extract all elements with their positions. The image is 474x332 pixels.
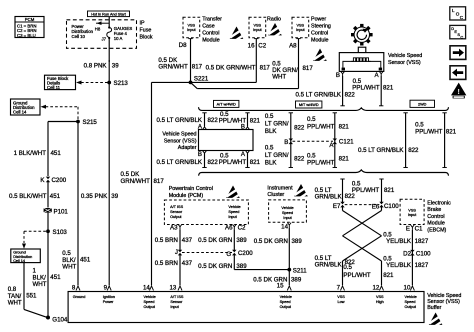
svg-text:Low: Low (338, 300, 345, 304)
svg-text:Electronic: Electronic (427, 200, 451, 206)
ground G104 (46, 316, 68, 324)
svg-text:VSS: VSS (187, 24, 195, 28)
buffer pin 12 (372, 284, 384, 304)
wire 0.5 DK GRN 389 from G to S211 (198, 255, 289, 270)
power steering control module box (292, 17, 331, 44)
svg-text:GRN/WHT: GRN/WHT (121, 178, 151, 185)
svg-text:Input: Input (253, 28, 262, 32)
svg-text:0.5 DK GRN: 0.5 DK GRN (198, 263, 232, 270)
wire 0.5 LT GRN/BLK 822 from VSS B (295, 76, 355, 106)
svg-text:821: 821 (250, 159, 261, 166)
svg-text:39: 39 (112, 62, 119, 69)
wire 0.5 BLK/WHT 451 to pin 8 (62, 250, 91, 270)
wire 0.5 DK GRN 389 cluster to S211 (254, 228, 303, 270)
connector C100 pin D2 (403, 250, 431, 258)
option label A/T w4WD (214, 100, 239, 107)
connector C121 (284, 138, 354, 149)
buffer pin 10 (404, 284, 417, 309)
svg-text:VSS: VSS (376, 295, 384, 299)
svg-text:Adapter: Adapter (178, 145, 197, 151)
svg-text:B: B (336, 72, 340, 79)
svg-text:C200: C200 (238, 250, 253, 257)
svg-text:Vehicle: Vehicle (144, 295, 156, 299)
svg-text:WHT: WHT (8, 300, 22, 307)
svg-text:Cell 11: Cell 11 (47, 85, 61, 90)
svg-text:WHT: WHT (33, 281, 47, 288)
svg-text:Module: Module (311, 38, 329, 44)
svg-text:A3: A3 (170, 224, 178, 231)
wire labels 2WD (358, 122, 457, 154)
svg-text:WHT: WHT (62, 264, 76, 271)
wire 0.5 DK GRN 389 upper (198, 229, 247, 250)
splice S211 (287, 267, 307, 274)
svg-text:0.35 PNK: 0.35 PNK (81, 193, 108, 200)
svg-text:VSS: VSS (296, 24, 304, 28)
PCM pin A6 C2 (225, 224, 246, 231)
AT adapter stub wire B top (241, 113, 250, 131)
wire labels MT lower left (265, 145, 305, 167)
svg-text:PPL/WHT: PPL/WHT (307, 124, 335, 131)
wire labels MT left (265, 113, 305, 135)
svg-text:Instrument: Instrument (267, 185, 293, 191)
svg-text:C100: C100 (384, 203, 399, 210)
svg-text:389: 389 (291, 276, 302, 283)
pin 16 C2 (248, 39, 267, 50)
svg-text:821: 821 (446, 128, 457, 135)
buffer pin 14 (143, 284, 156, 309)
transfer case control module box (183, 17, 222, 44)
wire 0.5 PPL/WHT 821 to E6 (352, 179, 395, 202)
ESD symbol transfer case (229, 27, 244, 41)
svg-text:Input: Input (187, 28, 196, 32)
svg-text:GRN/BLK: GRN/BLK (315, 262, 343, 269)
wire 0.5 BRN 437 lower to pin 13 (155, 255, 193, 285)
wire 1 BLK/WHT 451 lower (33, 231, 62, 317)
svg-text:Module: Module (427, 221, 445, 227)
svg-text:VSS: VSS (408, 209, 416, 213)
wire label 0.5 YEL/BLK 1827 lower (383, 255, 429, 269)
svg-text:C2: C2 (258, 42, 266, 49)
svg-text:LT GRN/: LT GRN/ (265, 152, 289, 159)
svg-text:Speed: Speed (282, 211, 293, 215)
wire labels AT bottom row (156, 152, 260, 166)
svg-text:437: 437 (182, 260, 193, 267)
svg-text:Cluster: Cluster (267, 192, 284, 198)
svg-text:G: G (226, 251, 231, 258)
svg-text:437: 437 (182, 237, 193, 244)
svg-text:821: 821 (384, 187, 395, 194)
splice J and connector C200 pin G (175, 249, 253, 258)
toolbar warning icon (451, 83, 466, 99)
wire label 0.5 LT GRN/BLK 822 lower (315, 255, 356, 269)
svg-text:Fuse: Fuse (140, 28, 152, 34)
svg-text:PPL/WHT: PPL/WHT (219, 159, 247, 166)
svg-text:Speed: Speed (144, 300, 155, 304)
svg-text:Sensor: Sensor (170, 210, 183, 214)
svg-text:GRN/BLK: GRN/BLK (315, 194, 343, 201)
dashed arrow S215 to Ground Distribution upper (41, 105, 79, 120)
VSS buffer title (427, 293, 461, 311)
svg-text:Input: Input (408, 213, 417, 217)
svg-text:822: 822 (294, 155, 305, 162)
svg-text:Vehicle Speed: Vehicle Speed (388, 53, 422, 59)
powertrain control module PCM box (164, 186, 248, 225)
svg-text:D2: D2 (403, 250, 411, 257)
svg-text:821: 821 (339, 124, 350, 131)
EBCM pin E C1 (406, 225, 423, 232)
wire 0.5 DK GRN/WHT 817 to pin 14 (121, 82, 191, 285)
svg-text:8: 8 (72, 284, 76, 291)
wire 0.5 DK GRN 389 to pin 15 (253, 270, 302, 286)
svg-text:389: 389 (292, 238, 303, 245)
svg-text:(EBCM): (EBCM) (427, 228, 446, 234)
wire power steering VSS to S221 (191, 43, 314, 89)
radio box (249, 17, 281, 38)
Hot in Run And Start label (88, 11, 130, 17)
grommet P101 (44, 208, 69, 231)
svg-text:13: 13 (169, 284, 176, 291)
ESD symbol instrument cluster (294, 184, 309, 198)
svg-text:Brake: Brake (427, 207, 441, 213)
wire 0.8 TAN/WHT 551 (8, 263, 47, 318)
svg-text:Input: Input (283, 216, 292, 220)
wire radio VSS to S221 (191, 43, 271, 82)
2WD bracket wire right (442, 113, 446, 168)
svg-text:C200: C200 (52, 177, 67, 184)
dashed arrow S103 to Ground Distribution lower (22, 231, 46, 249)
VSS reluctor wheel (351, 24, 373, 46)
instrument cluster box (267, 185, 306, 222)
svg-text:H8: H8 (95, 26, 101, 31)
svg-text:0.5 DK GRN: 0.5 DK GRN (254, 238, 288, 245)
wire 0.5 PPL/WHT 821 from VSS A (352, 76, 394, 106)
svg-text:Steering: Steering (311, 24, 331, 30)
svg-text:C: C (460, 35, 463, 40)
svg-text:J7: J7 (101, 37, 106, 42)
svg-text:D8: D8 (179, 42, 187, 49)
svg-text:!: ! (458, 89, 460, 96)
option split rail top (199, 107, 449, 110)
svg-text:C1: C1 (415, 225, 423, 232)
svg-text:14: 14 (281, 224, 288, 231)
svg-text:Control: Control (202, 31, 219, 37)
svg-text:0.5: 0.5 (343, 264, 352, 271)
vehicle speed sensor VSS body (339, 47, 422, 71)
svg-text:High: High (376, 300, 384, 304)
svg-text:0.5 LT GRN/BLK: 0.5 LT GRN/BLK (156, 159, 202, 166)
AT adapter stub wire B bottom (198, 151, 207, 168)
toolbar button next arrow (450, 46, 466, 60)
fuse GAUGES Fuse 4 (95, 17, 133, 62)
svg-text:S221: S221 (194, 75, 209, 82)
svg-text:16: 16 (248, 42, 255, 49)
2WD bracket wire left (403, 113, 407, 168)
wire S215 branch to left (48, 121, 78, 123)
ESD symbol PCM (226, 186, 241, 200)
svg-text:Vehicle: Vehicle (228, 205, 240, 209)
electronic brake control module box (400, 199, 451, 233)
toolbar button LOC (450, 7, 466, 20)
svg-text:PPL/WHT: PPL/WHT (307, 160, 335, 167)
svg-text:821: 821 (383, 85, 394, 92)
svg-text:0.5 DK GRN: 0.5 DK GRN (198, 237, 232, 244)
svg-text:E: E (406, 225, 410, 232)
svg-text:Module: Module (202, 38, 220, 44)
svg-text:Cell 14: Cell 14 (13, 259, 25, 263)
svg-text:1827: 1827 (415, 262, 429, 269)
svg-text:Sensor (VSS): Sensor (VSS) (164, 138, 197, 144)
svg-text:PPL/WHT: PPL/WHT (343, 272, 371, 279)
arrow to Power Distribution (96, 21, 109, 25)
splice S215 (76, 119, 97, 126)
svg-text:Block: Block (140, 35, 153, 41)
PCM pin A3 (170, 224, 182, 231)
svg-text:817: 817 (303, 65, 314, 72)
svg-text:0.5 LT GRN/BLK: 0.5 LT GRN/BLK (358, 147, 404, 154)
svg-text:Input: Input (296, 28, 305, 32)
svg-text:PPL/WHT: PPL/WHT (352, 85, 380, 92)
svg-text:S103: S103 (53, 229, 68, 236)
svg-text:PPL/WHT: PPL/WHT (352, 187, 380, 194)
Ground Distribution Cell 14 box lower (11, 249, 41, 263)
svg-text:822: 822 (294, 124, 305, 131)
AT adapter stub wire A bottom (241, 151, 250, 168)
svg-text:Ignition: Ignition (103, 295, 115, 299)
svg-text:821: 821 (250, 117, 261, 124)
IP Fuse Block label (140, 21, 153, 41)
svg-text:0.5 BRN: 0.5 BRN (155, 260, 178, 267)
svg-text:VSS: VSS (337, 295, 345, 299)
ESD symbol power steering (313, 49, 328, 63)
svg-text:451: 451 (80, 256, 91, 263)
svg-text:Radio: Radio (267, 17, 281, 23)
vehicle speed sensor VSS buffer box (68, 292, 424, 323)
wire 0.5 YEL/BLK 1827 upper (383, 230, 429, 285)
svg-text:L: L (452, 8, 455, 13)
svg-text:Buffer: Buffer (427, 305, 441, 311)
svg-text:Hot in Run And Start: Hot in Run And Start (91, 12, 127, 16)
MT bracket wire left (289, 113, 293, 168)
svg-text:S213: S213 (114, 80, 129, 87)
svg-text:817: 817 (154, 178, 165, 185)
wire labels MT lower right (307, 153, 349, 167)
svg-text:12: 12 (372, 284, 379, 291)
svg-text:A8: A8 (289, 42, 297, 49)
svg-text:BLK: BLK (265, 128, 278, 135)
pin D8 (179, 39, 193, 49)
svg-text:389: 389 (236, 237, 247, 244)
buffer pin 15 (277, 282, 292, 309)
svg-text:A/T ISS: A/T ISS (170, 205, 183, 209)
pin A8 (289, 39, 301, 50)
wire 0.8 PNK 39 (84, 60, 120, 83)
connector C200 pin K (40, 177, 66, 184)
svg-text:Sensor: Sensor (170, 300, 183, 304)
svg-text:821: 821 (339, 156, 350, 163)
svg-text:Speed: Speed (228, 210, 239, 214)
PCM connector legend box (15, 17, 44, 39)
svg-text:822: 822 (408, 147, 419, 154)
svg-text:451: 451 (50, 193, 61, 200)
vehicle speed sensor VSS adapter box (162, 130, 253, 152)
AT adapter stub wire A top (198, 113, 207, 131)
svg-text:C3 = BLU: C3 = BLU (17, 33, 36, 38)
svg-text:LT GRN/: LT GRN/ (265, 121, 289, 128)
splice S103 (46, 229, 67, 236)
svg-text:0.5: 0.5 (307, 153, 316, 160)
svg-text:Output: Output (280, 305, 292, 309)
svg-text:0.5 LT GRN/BLK: 0.5 LT GRN/BLK (295, 92, 341, 99)
buffer pin 13 (169, 284, 183, 309)
svg-text:Control: Control (311, 31, 328, 37)
svg-text:451: 451 (50, 274, 61, 281)
svg-text:B: B (198, 151, 202, 158)
svg-text:Case: Case (202, 24, 215, 30)
svg-text:0.8 PNK: 0.8 PNK (84, 62, 108, 69)
wire 0.5 BLK/WHT 451 left (9, 182, 61, 208)
buffer pin 7 (337, 284, 346, 304)
svg-text:A6: A6 (225, 224, 233, 231)
svg-text:Power: Power (103, 300, 114, 304)
svg-text:Power: Power (311, 17, 326, 23)
svg-text:Vehicle: Vehicle (280, 295, 292, 299)
twisted pair wires to VSS buffer (343, 206, 382, 285)
splice S221 (189, 75, 209, 84)
svg-text:E7: E7 (333, 203, 341, 210)
svg-text:WHT: WHT (272, 74, 286, 81)
svg-text:P101: P101 (54, 209, 69, 216)
option merge rail bottom (199, 170, 449, 176)
svg-text:Sensor (VSS): Sensor (VSS) (388, 60, 421, 66)
svg-text:Speed: Speed (280, 300, 291, 304)
svg-text:S211: S211 (293, 267, 307, 274)
svg-text:M/T w/4WD: M/T w/4WD (299, 103, 319, 107)
wire label 0.5 PPL/WHT 821 lower (343, 264, 394, 279)
svg-text:10 A: 10 A (114, 36, 123, 41)
svg-text:C121: C121 (339, 138, 354, 145)
svg-text:Cell 10: Cell 10 (72, 34, 86, 39)
ESD symbol VSS buffer (428, 313, 443, 327)
svg-text:C2: C2 (238, 224, 246, 231)
Ground Distribution Cell 14 box upper (11, 99, 41, 115)
svg-text:Control: Control (427, 214, 444, 220)
svg-text:Output: Output (405, 305, 417, 309)
svg-text:0.5 LT GRN/BLK: 0.5 LT GRN/BLK (156, 117, 202, 124)
svg-text:451: 451 (51, 150, 62, 157)
svg-text:822: 822 (208, 117, 219, 124)
svg-text:551: 551 (26, 292, 37, 299)
IP fuse block dashed box (67, 20, 137, 49)
svg-text:Transfer: Transfer (202, 17, 222, 23)
wire labels AT top row (156, 111, 260, 125)
wire 0.5 DK GRN/WHT 817 from D8 (158, 43, 202, 82)
buffer pin 8 (72, 284, 85, 299)
buffer pin 9 (103, 284, 115, 304)
toolbar button back arrow (450, 66, 466, 80)
svg-text:B: B (284, 139, 288, 146)
svg-text:1 BLK/WHT: 1 BLK/WHT (14, 150, 47, 157)
svg-text:0.5 BRN: 0.5 BRN (155, 237, 178, 244)
svg-text:Vehicle: Vehicle (281, 206, 293, 210)
svg-text:0.5 DK GRN/WHT: 0.5 DK GRN/WHT (206, 64, 256, 71)
wire labels MT right (307, 116, 349, 131)
svg-text:Input: Input (170, 305, 179, 309)
svg-text:G104: G104 (52, 316, 68, 323)
toolbar button DESC (450, 25, 466, 39)
svg-text:Ground: Ground (73, 295, 86, 299)
wire S215 down to pin 8 (77, 122, 79, 286)
VSS pin B (336, 72, 345, 80)
svg-text:Vehicle Speed: Vehicle Speed (427, 293, 461, 299)
svg-text:IP: IP (140, 21, 145, 27)
svg-text:822: 822 (345, 92, 356, 99)
svg-text:0.5: 0.5 (307, 116, 316, 123)
svg-text:YEL/BLK: YEL/BLK (386, 238, 412, 245)
wire 0.5 BRN 437 upper (155, 229, 193, 250)
svg-text:817: 817 (260, 64, 271, 71)
svg-text:39: 39 (111, 193, 118, 200)
svg-text:0.5: 0.5 (265, 145, 274, 152)
wire 0.35 PNK 39 (81, 83, 119, 286)
svg-text:821: 821 (383, 272, 394, 279)
svg-text:Output: Output (144, 305, 156, 309)
svg-text:BLK: BLK (265, 160, 278, 167)
svg-text:Input: Input (228, 215, 237, 219)
svg-text:GRN/WHT: GRN/WHT (158, 64, 188, 71)
svg-text:A/T ISS: A/T ISS (170, 295, 183, 299)
svg-text:2WD: 2WD (418, 103, 427, 107)
svg-text:C100: C100 (416, 250, 431, 257)
svg-text:0.5 BLK/WHT: 0.5 BLK/WHT (9, 193, 47, 200)
svg-text:7: 7 (337, 284, 341, 291)
Fuse Block Details box (45, 75, 76, 90)
cluster pin 14 (281, 223, 291, 231)
svg-text:389: 389 (236, 263, 247, 270)
wire 0.5 LT GRN/BLK 822 to E7 (315, 179, 356, 202)
svg-text:817: 817 (192, 64, 203, 71)
svg-text:822: 822 (208, 159, 219, 166)
svg-text:Powertrain Control: Powertrain Control (169, 186, 213, 192)
svg-text:Vehicle: Vehicle (405, 295, 417, 299)
svg-text:Sensor (VSS): Sensor (VSS) (427, 299, 460, 305)
svg-text:Vehicle Speed: Vehicle Speed (162, 132, 196, 138)
svg-text:Speed: Speed (405, 300, 416, 304)
svg-text:15: 15 (277, 282, 284, 289)
svg-text:Output: Output (170, 215, 182, 219)
svg-text:PPL/WHT: PPL/WHT (219, 117, 247, 124)
svg-text:A/T w/4WD: A/T w/4WD (217, 103, 236, 107)
svg-text:VSS: VSS (253, 24, 261, 28)
MT bracket wire right (333, 113, 337, 168)
svg-text:Cell 14: Cell 14 (13, 110, 27, 115)
svg-text:0.5: 0.5 (265, 113, 274, 120)
connector C100 pins E7 E6 (333, 202, 399, 211)
svg-text:PCM: PCM (25, 17, 35, 22)
ESD symbol radio (268, 23, 283, 37)
splice S213 (107, 80, 128, 87)
svg-text:YEL/BLK: YEL/BLK (386, 262, 412, 269)
svg-text:E6: E6 (372, 203, 380, 210)
VSS pin A (374, 72, 383, 80)
dashed arrow S213 to Fuse Block Details (76, 81, 108, 85)
svg-text:822: 822 (345, 193, 356, 200)
svg-text:S215: S215 (83, 119, 98, 126)
svg-text:Module (PCM): Module (PCM) (169, 193, 204, 199)
svg-text:10: 10 (404, 284, 411, 291)
option label M/T w4WD (296, 101, 322, 108)
option label 2WD (410, 100, 435, 107)
wire 1 BLK/WHT 451 upper (14, 122, 62, 177)
